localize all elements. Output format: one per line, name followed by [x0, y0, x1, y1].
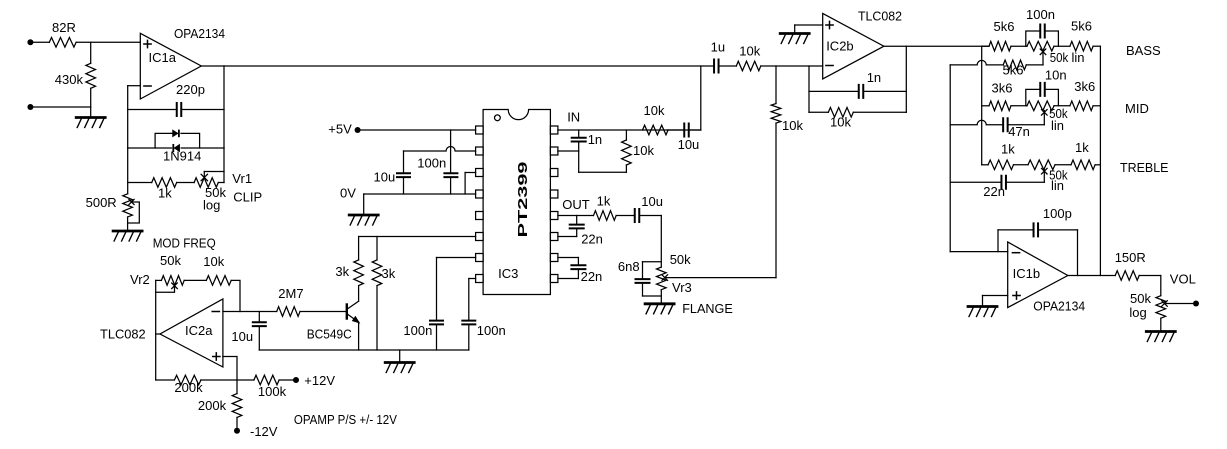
wire [403, 151, 405, 172]
wire [300, 311, 346, 313]
svg-text:47n: 47n [1008, 124, 1030, 139]
wire [1093, 45, 1100, 47]
wire [223, 357, 237, 381]
capacitor 47n [1003, 118, 1008, 131]
svg-text:10k: 10k [644, 103, 665, 118]
wire 0V rail [364, 193, 476, 195]
wire [982, 164, 988, 166]
svg-text:50k: 50k [670, 252, 691, 267]
ground [113, 230, 142, 233]
resistor 82R [49, 38, 76, 48]
capacitor 100p [1034, 223, 1039, 236]
svg-text:100n: 100n [477, 323, 506, 338]
ground [385, 361, 414, 364]
wire [1054, 45, 1070, 47]
wire [128, 182, 152, 184]
wire IC1a output to 1u [224, 65, 713, 67]
svg-text:5k6: 5k6 [1003, 63, 1024, 78]
wire [761, 65, 823, 67]
svg-text:OUT: OUT [562, 197, 590, 212]
capacitor 22n first [576, 216, 578, 224]
wire [720, 65, 737, 67]
wire 100p row [998, 229, 1033, 231]
wire Vr1 wiper [203, 172, 205, 178]
wire TREBLE wiper [1043, 170, 1045, 183]
capacitor 10n mid bridge [1026, 89, 1039, 105]
svg-text:3k6: 3k6 [992, 80, 1013, 95]
svg-text:100k: 100k [258, 384, 287, 399]
node +5V [355, 127, 361, 133]
wire [90, 107, 92, 118]
wire [1077, 230, 1079, 276]
wire [156, 379, 175, 381]
wire feedback right rail lower [223, 148, 225, 183]
capacitor 10u LFO [258, 312, 260, 322]
svg-text:82R: 82R [52, 20, 76, 35]
wire pin1 +5V [358, 129, 476, 131]
wire [231, 280, 240, 311]
transistor Q1 BC549C [346, 305, 348, 319]
svg-text:PT2399: PT2399 [515, 162, 530, 238]
wire pin2 [404, 147, 476, 152]
op-amp IC2a (points left) [160, 299, 223, 367]
op-amp IC2b [823, 13, 884, 79]
svg-text:IC2b: IC2b [826, 39, 853, 54]
svg-text:1n: 1n [588, 132, 602, 147]
wire IC1a inverting rail lower [127, 148, 129, 183]
capacitor 10u decoupling [397, 173, 410, 177]
resistor 2M7 [277, 307, 300, 317]
resistor 3k6 mid left [989, 101, 1011, 111]
wire OUT down to Vr3 [660, 216, 662, 268]
potentiometer Vr1 50k log CLIP [194, 178, 218, 188]
wire pin7 [437, 257, 476, 259]
wire tone right rail [1099, 46, 1101, 275]
svg-text:10u: 10u [231, 329, 253, 344]
wire [690, 129, 701, 131]
wire [30, 106, 90, 108]
resistor 3k left [354, 260, 364, 286]
svg-text:Vr1: Vr1 [232, 171, 252, 186]
wire [399, 350, 401, 363]
capacitor 10u OUT [635, 209, 640, 222]
node -12V [234, 428, 240, 434]
svg-text:OPA2134: OPA2134 [174, 26, 225, 41]
wire [236, 417, 238, 430]
svg-text:MID: MID [1125, 101, 1149, 116]
wire IC2b fb right rail [905, 46, 907, 112]
wire [668, 129, 683, 131]
potentiometer BASS 50k lin [1027, 41, 1054, 51]
wire [982, 296, 984, 307]
wire [1139, 275, 1161, 277]
svg-text:2M7: 2M7 [278, 286, 303, 301]
capacitor 1u [714, 60, 719, 73]
potentiometer MID 50k lin [1027, 101, 1054, 111]
wire [90, 88, 92, 107]
svg-text:6n8: 6n8 [618, 259, 640, 274]
wire feedback right rail [223, 66, 225, 148]
wire IN branch up [700, 66, 702, 130]
wire [218, 182, 224, 184]
capacitor 1n input [578, 130, 580, 137]
svg-text:10k: 10k [830, 115, 851, 130]
wire pin2R [558, 150, 579, 152]
wire IC1b output [1068, 275, 1115, 277]
svg-text:200k: 200k [174, 380, 203, 395]
svg-text:IC3: IC3 [498, 266, 518, 281]
svg-text:5k6: 5k6 [1071, 19, 1092, 34]
svg-text:50k: 50k [1130, 291, 1151, 306]
wire left return rail [949, 65, 951, 252]
wire IC2b fb left rail [808, 66, 810, 112]
wire [982, 45, 989, 47]
wire [468, 325, 470, 350]
svg-text:Vr3: Vr3 [672, 280, 692, 295]
wire feedback to Vr3 wiper [775, 123, 777, 278]
wire [468, 279, 470, 320]
svg-text:430k: 430k [55, 72, 84, 87]
svg-text:BC549C: BC549C [307, 327, 352, 342]
wire [127, 217, 129, 231]
svg-text:OPAMP P/S +/- 12V: OPAMP P/S +/- 12V [294, 412, 397, 427]
wire [128, 109, 176, 111]
resistor 1k treble right [1071, 160, 1095, 170]
capacitor 22n treble [1001, 176, 1006, 189]
svg-text:10k: 10k [739, 44, 760, 59]
svg-text:100n: 100n [403, 323, 432, 338]
capacitor 10u IN [684, 124, 689, 137]
wire IC2a inv row [223, 311, 277, 313]
svg-text:5k6: 5k6 [994, 19, 1015, 34]
wire [376, 286, 378, 350]
svg-text:22n: 22n [581, 232, 603, 247]
svg-text:+12V: +12V [304, 373, 335, 388]
wire Vr2 left rail [155, 280, 157, 380]
wire diode loop [155, 133, 171, 148]
wire [643, 261, 662, 263]
wire [983, 295, 1008, 297]
svg-text:220p: 220p [176, 82, 205, 97]
potentiometer VOL 50k log [1156, 296, 1166, 319]
svg-text:lin: lin [1051, 118, 1064, 133]
resistor 10k shunt IN [625, 130, 627, 140]
resistor 10k IN series [643, 125, 669, 135]
svg-text:22n: 22n [581, 269, 603, 284]
svg-text:3k: 3k [382, 266, 396, 281]
svg-text:10n: 10n [1045, 68, 1067, 83]
node VOL output [1193, 301, 1199, 307]
diode D1 1N914 (points right) [173, 131, 178, 137]
ground [1146, 330, 1175, 333]
svg-text:500R: 500R [86, 195, 117, 210]
wire [640, 215, 661, 217]
svg-text:10k: 10k [782, 118, 803, 133]
op-amp IC1a [140, 33, 201, 99]
wire [982, 105, 989, 107]
svg-text:log: log [1129, 305, 1146, 320]
svg-text:lin: lin [1051, 178, 1064, 193]
svg-text:10u: 10u [374, 170, 396, 185]
svg-text:1k: 1k [597, 194, 611, 209]
wire pin6 [359, 236, 476, 238]
svg-text:22n: 22n [983, 184, 1005, 199]
wire [436, 258, 438, 320]
svg-text:OPA2134: OPA2134 [1033, 299, 1085, 314]
svg-text:1k: 1k [158, 186, 172, 201]
svg-text:10k: 10k [203, 254, 224, 269]
wire [403, 178, 405, 194]
wire [201, 65, 224, 67]
wire [616, 215, 634, 217]
wire [997, 230, 999, 252]
svg-text:TLC082: TLC082 [858, 8, 902, 23]
capacitor 100n pin7 [430, 321, 443, 325]
wire [579, 171, 627, 173]
wire [578, 143, 580, 173]
wire [1011, 45, 1027, 47]
svg-text:IC2a: IC2a [185, 323, 213, 338]
wire [809, 111, 828, 113]
wire bass return row [950, 60, 1003, 64]
ground [645, 302, 674, 305]
resistor 5k6 bass left [989, 41, 1011, 51]
wire [436, 325, 438, 350]
node junction 82R/430k [90, 42, 92, 63]
resistor 3k6 mid right [1070, 101, 1093, 111]
capacitor 220p [177, 103, 182, 116]
ground [76, 116, 105, 119]
wire diode row [128, 147, 172, 149]
svg-text:1k: 1k [1001, 141, 1015, 156]
svg-text:10k: 10k [633, 143, 654, 158]
potentiometer Vr3 50k FLANGE [657, 267, 667, 290]
svg-text:BASS: BASS [1126, 43, 1161, 58]
resistor 200k fb [174, 375, 201, 385]
svg-text:1k: 1k [1075, 140, 1089, 155]
svg-text:FLANGE: FLANGE [682, 301, 733, 316]
wire IC2b output [884, 45, 989, 47]
ground [968, 305, 997, 308]
capacitor 1n IC2b [859, 85, 864, 98]
wire [794, 25, 796, 34]
IC3 pin stubs [476, 126, 484, 134]
wire pin6R [558, 236, 577, 238]
svg-text:lin: lin [1072, 50, 1085, 65]
capacitor 22n second [577, 258, 579, 265]
wire [30, 41, 49, 43]
svg-text:TLC082: TLC082 [100, 327, 146, 342]
wire MID wiper [1043, 111, 1045, 125]
wire pin8R [558, 278, 579, 280]
wire [795, 24, 823, 26]
wire [363, 194, 365, 215]
wire emitter [358, 322, 360, 350]
wire BASS wiper [1042, 53, 1044, 65]
op-amp IC1b [1008, 242, 1068, 308]
svg-text:0V: 0V [340, 186, 356, 201]
IC U3 PT2399 body [483, 110, 550, 295]
wire [1160, 318, 1162, 331]
wire treble return row [950, 181, 1000, 183]
svg-text:CLIP: CLIP [233, 190, 262, 205]
svg-text:log: log [203, 198, 220, 213]
svg-text:200k: 200k [198, 398, 227, 413]
svg-text:1u: 1u [711, 40, 725, 55]
svg-text:100n: 100n [1026, 7, 1055, 22]
wire [258, 327, 260, 350]
potentiometer Vr2 50k [161, 276, 184, 286]
wire pin7R [558, 257, 579, 259]
svg-text:100p: 100p [1043, 206, 1072, 221]
resistor 150R [1115, 271, 1139, 281]
ground [349, 214, 378, 217]
svg-text:+5V: +5V [328, 122, 352, 137]
wire mid return row [950, 120, 1002, 125]
wire pin IN [558, 129, 701, 131]
resistor 10k feedback depth [775, 66, 777, 104]
svg-text:50k: 50k [160, 253, 181, 268]
svg-text:Vr2: Vr2 [130, 272, 150, 287]
wire [853, 111, 906, 113]
svg-text:3k6: 3k6 [1074, 79, 1095, 94]
wire [950, 251, 1008, 253]
svg-text:150R: 150R [1115, 250, 1146, 265]
wire [156, 279, 162, 281]
wire [809, 90, 858, 92]
wire pin8 [469, 278, 476, 280]
svg-text:IC1a: IC1a [149, 50, 177, 65]
resistor 5k6 bass right [1070, 41, 1093, 51]
resistor 1k OUT [594, 211, 617, 221]
potentiometer TREBLE 50k lin [1028, 160, 1055, 170]
svg-text:50k: 50k [1050, 50, 1069, 65]
resistor 430k [86, 63, 96, 88]
svg-text:-12V: -12V [250, 424, 278, 439]
ground [780, 32, 809, 35]
wire analog ground rail [259, 349, 469, 351]
resistor 3k right [372, 260, 382, 286]
svg-text:MOD FREQ: MOD FREQ [153, 236, 216, 251]
wire [156, 333, 160, 335]
node input jack tip [27, 39, 33, 45]
svg-text:100n: 100n [417, 156, 446, 171]
svg-text:1N914: 1N914 [163, 149, 201, 164]
resistor 10k LFO [206, 276, 231, 286]
wire [643, 295, 662, 297]
resistor 10k IC2b fb [828, 108, 853, 118]
wire VOL wiper [1162, 301, 1168, 307]
resistor 100k [254, 375, 279, 385]
trimpot 500R [123, 194, 133, 217]
wire Vr2 wiper [172, 283, 178, 289]
resistor 5k6 bass return [1003, 60, 1026, 70]
wire [1054, 105, 1070, 107]
resistor 1k treble left [988, 160, 1013, 170]
resistor 200k bias [236, 380, 238, 394]
resistor 1k [152, 178, 177, 188]
capacitor 100n decoupling [444, 173, 457, 177]
svg-text:IN: IN [567, 110, 580, 125]
wire [177, 182, 194, 184]
wire [358, 237, 360, 260]
svg-text:10u: 10u [641, 194, 663, 209]
wire [279, 379, 296, 381]
svg-text:VOL: VOL [1170, 272, 1196, 287]
wire [127, 183, 129, 194]
wire [1026, 64, 1043, 66]
wire collector [358, 286, 360, 301]
wire [76, 41, 140, 43]
capacitor 6n8 [642, 262, 644, 278]
wire Vr3 wiper [662, 275, 668, 281]
node +12V [293, 377, 299, 383]
resistor 10k mix [736, 61, 761, 71]
wire IC1a inverting rail [127, 86, 129, 148]
capacitor 100n bass bridge [1026, 31, 1039, 46]
capacitor 100n pin8 [462, 321, 475, 325]
node input jack sleeve [27, 104, 33, 110]
wire pin3 to 0V [465, 172, 476, 174]
wire [1055, 164, 1071, 166]
diode D2 1N914 (points left) [175, 145, 180, 151]
svg-text:IC1b: IC1b [1013, 266, 1040, 281]
wire +5V branch down [450, 130, 452, 172]
wire pin OUT [558, 215, 594, 217]
svg-text:TREBLE: TREBLE [1120, 160, 1169, 175]
svg-text:3k: 3k [335, 264, 349, 279]
svg-text:1n: 1n [867, 70, 881, 85]
svg-text:10u: 10u [678, 137, 700, 152]
wire tone input rail [981, 46, 983, 165]
wire [128, 85, 141, 87]
